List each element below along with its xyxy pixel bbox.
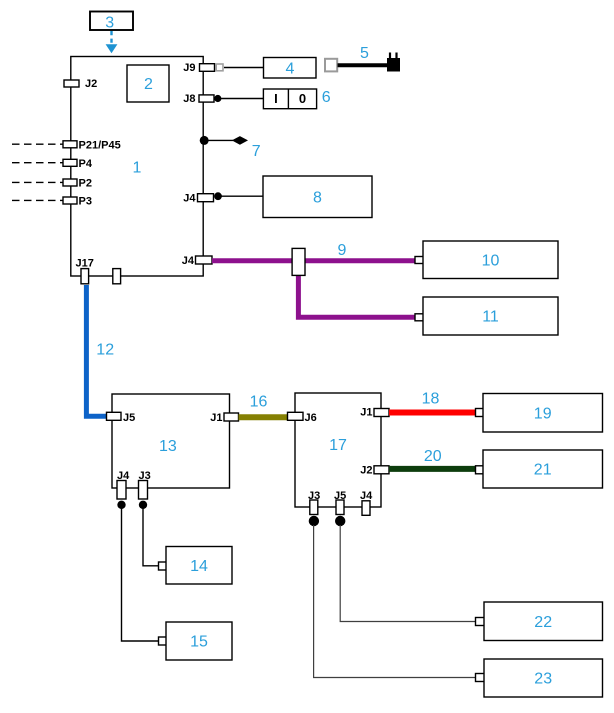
svg-text:11: 11 [482,309,499,326]
svg-text:J2: J2 [85,78,97,90]
wire J3 to box 23 [314,525,476,678]
svg-text:J4: J4 [183,193,196,205]
box 17 [295,393,381,507]
svg-text:2: 2 [144,76,153,93]
svg-text:J6: J6 [305,412,317,424]
connector J5 on box 13 [107,412,136,424]
diamond terminator 7 [232,136,248,145]
box 14 [166,547,232,585]
connector J4 on box 13 bottom [117,470,130,499]
connector J3 on box 13 bottom [139,470,151,499]
svg-text:J17: J17 [76,257,94,269]
svg-text:J4: J4 [360,490,373,502]
dashed stub P2 [12,181,63,183]
connector J8 [183,93,214,105]
connector P4 [63,158,93,170]
connector J2 [64,78,97,90]
connector at box 21 [476,466,491,474]
svg-text:21: 21 [534,462,552,479]
connector P21/P45 [63,139,121,151]
svg-text:20: 20 [424,448,442,465]
connector J17 [76,257,94,284]
wire 20 dark green J2 to box 21 [389,466,476,472]
svg-text:17: 17 [329,437,347,454]
box 10 [423,241,558,279]
svg-text:P4: P4 [79,158,93,170]
connector at box 22 [476,618,491,626]
svg-text:16: 16 [250,394,268,411]
svg-text:23: 23 [534,671,552,688]
svg-text:0: 0 [299,91,306,106]
junction dot below J3 [139,501,147,509]
wire J4 to box 8 [222,195,264,197]
box 8 [263,176,372,218]
wire J4 to box 15 [122,508,159,641]
svg-text:15: 15 [190,634,208,651]
junction dot below J5 (box 17) [335,516,345,526]
junction node on box 1 right edge [200,136,209,145]
dashed stub P3 [12,199,63,201]
svg-text:P3: P3 [79,196,92,208]
box 3 (callout box top) [90,12,133,32]
connector at box 15 [159,637,175,645]
cable 5 plug [387,53,400,72]
connector J5 on box 17 bottom [334,490,346,515]
svg-text:1: 1 [133,159,142,176]
box 1 (main unit) [71,57,203,277]
svg-text:J9: J9 [183,62,195,74]
cable 5 connector square [325,59,337,72]
svg-text:P2: P2 [79,178,92,190]
box 4 [264,58,317,79]
svg-text:J3: J3 [308,490,320,502]
box 6 (I/0 switch) [263,89,316,109]
svg-text:J5: J5 [334,490,346,502]
wire J5 to box 22 [340,525,476,622]
connector J9 [183,62,214,74]
connector at box 11 [415,314,431,321]
svg-text:J2: J2 [360,464,372,476]
connector P3 [63,196,92,208]
connector J3 on box 17 bottom [308,490,320,515]
svg-text:8: 8 [313,190,322,207]
dashed blue arrow from box 3 to box 1 [106,31,118,53]
cable 5 cord [338,63,389,67]
box 11 [423,297,558,335]
connector at box 23 [476,674,491,682]
junction dot at J4 [214,192,222,200]
svg-text:12: 12 [96,342,114,359]
connector J1 on box 17 [360,407,389,419]
svg-text:10: 10 [482,253,500,270]
junction dot at J8 [214,95,221,102]
svg-text:3: 3 [105,15,114,32]
connector J4 (upper) [183,193,213,205]
dashed stub P21/P45 [12,143,63,145]
box 13 [112,394,230,488]
svg-text:J1: J1 [210,412,222,424]
wire 9 purple segment J4 to inline connector [212,258,293,263]
connector at box 14 [159,562,175,570]
svg-text:I: I [274,91,278,106]
svg-text:J5: J5 [123,412,135,424]
svg-text:J4: J4 [117,470,130,482]
dashed stub P4 [12,162,63,164]
svg-text:22: 22 [534,614,552,631]
wire 16 olive J1 to J6 [239,414,289,420]
svg-text:4: 4 [286,61,295,78]
svg-text:J1: J1 [360,407,372,419]
wire 9 purple branch down to box 11 [298,275,418,317]
svg-text:18: 18 [422,390,440,407]
terminator square at J9 [216,64,223,71]
unlabeled connector on box 1 bottom [113,269,121,284]
connector J6 on box 17 [288,412,317,424]
junction dot below J4 [117,501,125,509]
connector at box 19 [476,409,491,417]
connector P2 [63,178,92,190]
wire 12 blue J17 to J5 [86,285,107,416]
svg-text:5: 5 [360,45,369,62]
svg-text:J3: J3 [139,470,151,482]
wire J8 to box 6 [221,98,263,100]
junction dot below J3 (box 17) [309,516,319,526]
svg-text:14: 14 [190,558,208,575]
wire J9 to box 4 [224,67,264,69]
connector J4 (lower) [182,255,212,267]
box 2 (sub module inside box 1) [127,65,169,102]
svg-text:J8: J8 [183,93,195,105]
svg-text:13: 13 [159,438,177,455]
svg-text:6: 6 [322,89,331,106]
connector J4 on box 17 bottom [360,490,373,516]
box 21 [483,450,603,488]
connector J1 on box 13 [210,412,238,424]
box 22 [484,602,603,641]
wire J3 to box 14 [143,508,159,566]
connector at box 10 [415,257,431,264]
wire 9 purple segment connector to box 10 [305,258,419,263]
wire node to diamond 7 [208,139,233,141]
wire 18 red J1 to box 19 [389,410,476,416]
svg-text:7: 7 [252,143,261,160]
svg-text:J4: J4 [182,255,195,267]
svg-text:19: 19 [534,406,552,423]
box 23 [484,659,603,697]
box 19 [483,394,603,433]
svg-text:9: 9 [337,242,346,259]
connector J2 on box 17 [360,464,389,476]
box 15 [166,622,232,660]
inline connector on wire 9 [292,248,305,275]
svg-text:P21/P45: P21/P45 [79,139,121,151]
